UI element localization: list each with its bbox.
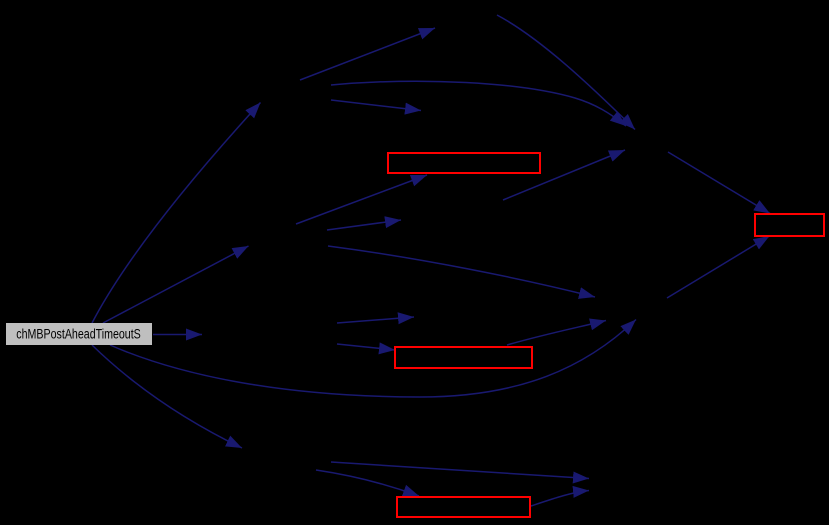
wire C to red box R4 — [668, 152, 770, 214]
wire N2 to node N8 — [327, 220, 401, 230]
wire N3 to node N7 — [337, 317, 414, 323]
red box R1 — [388, 153, 540, 173]
wire N9 to node D — [331, 462, 589, 479]
wire M to node N3 — [153, 334, 202, 336]
wire M to node N2 — [103, 246, 249, 323]
wire B to red box R4 — [667, 236, 770, 298]
wire M to node B (long swoop) — [110, 320, 636, 398]
red box R3 — [397, 497, 530, 517]
wire N1 to node N5 — [331, 100, 421, 111]
red box R2 — [395, 347, 532, 368]
wire N3 to red box R2 — [337, 344, 395, 350]
wire N2 to red box R1 — [296, 175, 427, 224]
wire N9 to red box R3 — [316, 470, 419, 496]
wire N2 to node B — [328, 246, 595, 297]
wire M to node N9 — [92, 345, 242, 448]
wire N8 to node C — [503, 150, 625, 200]
node M: chMBPostAheadTimeoutS — [6, 323, 152, 345]
svg-text:chMBPostAheadTimeoutS: chMBPostAheadTimeoutS — [16, 327, 141, 342]
wire R2 to node B — [507, 321, 606, 346]
wire R3 to node D — [531, 491, 589, 507]
wire N1 to node N4 — [300, 28, 435, 80]
wire N4 to node C — [497, 15, 635, 130]
wire N1 to node C — [331, 81, 626, 126]
red box R4 — [755, 214, 824, 236]
wire M to node N1 — [92, 103, 261, 324]
